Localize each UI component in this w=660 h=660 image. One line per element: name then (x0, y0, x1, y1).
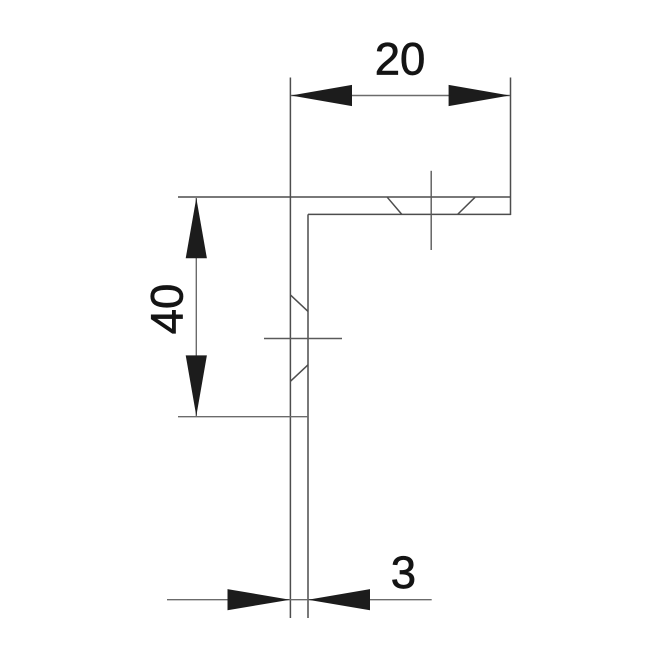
wire dimension line 40 (195, 198, 197, 416)
wire lower extension line of dimension 40 (178, 416, 308, 418)
svg-text:20: 20 (375, 34, 426, 85)
wire profile left outer edge with top extension (289, 78, 291, 619)
node arrowhead top of dimension 40 (186, 198, 207, 258)
wire dimension line 20 (291, 95, 510, 97)
node arrowhead left of dimension 3 (228, 589, 291, 610)
wire break diagonal left on horizontal leg (387, 197, 402, 214)
wire break diagonal upper on vertical leg (290, 295, 308, 311)
wire profile inner vertical edge (307, 214, 309, 618)
wire profile right end cap with extension line (510, 78, 512, 216)
svg-text:3: 3 (391, 547, 416, 598)
node arrowhead bottom of dimension 40 (186, 355, 207, 416)
svg-text:40: 40 (142, 284, 193, 335)
node arrowhead right of dimension 20 (449, 85, 510, 106)
wire break diagonal lower on vertical leg (290, 365, 308, 381)
wire dimension line 3 (167, 599, 432, 601)
node arrowhead right of dimension 3 (308, 589, 370, 610)
wire break diagonal right on horizontal leg (458, 197, 475, 214)
wire vertical break centerline on horizontal leg (430, 171, 432, 250)
wire profile top outer edge with left extension (178, 196, 511, 198)
wire horizontal break centerline on vertical leg (264, 338, 342, 340)
node arrowhead left of dimension 20 (291, 85, 352, 106)
wire profile inner horizontal edge (308, 213, 511, 215)
